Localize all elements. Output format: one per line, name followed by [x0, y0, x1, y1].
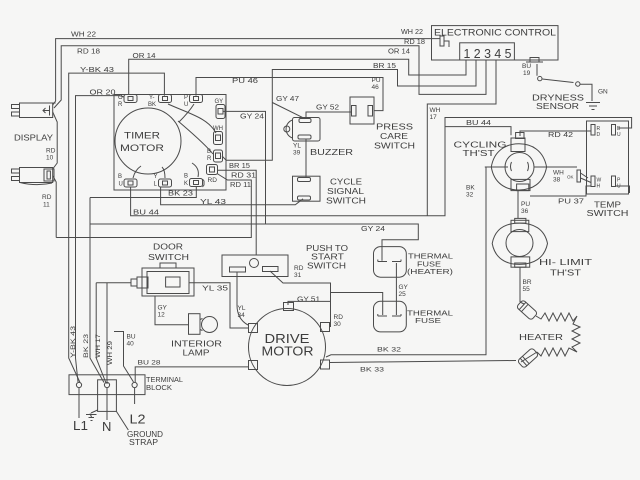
wire RD 31: [217, 170, 256, 255]
wire GY 24 main: [90, 198, 418, 261]
timer terminal BK: [184, 174, 204, 188]
timer terminal Y-BK: [148, 95, 172, 109]
thermal fuse (heater): [374, 247, 454, 278]
svg-text:BU 44: BU 44: [133, 210, 159, 217]
wire BK 23: [90, 187, 196, 198]
svg-text:38: 38: [553, 177, 561, 184]
svg-text:WH 22: WH 22: [71, 32, 96, 39]
svg-text:39: 39: [293, 150, 301, 157]
terminal block: [69, 375, 183, 447]
temp switch: [587, 121, 630, 218]
svg-text:ELECTRONIC CONTROL: ELECTRONIC CONTROL: [434, 28, 556, 38]
wire GY 51: [288, 297, 331, 306]
svg-text:CARE: CARE: [380, 132, 408, 141]
wire BK 32: [326, 167, 508, 357]
drive motor: [249, 303, 330, 386]
wire GY 25: [396, 263, 408, 315]
svg-text:BU: BU: [127, 334, 136, 341]
wire door switch left feed: [96, 282, 131, 284]
door switch: [131, 243, 194, 297]
svg-text:RD: RD: [334, 314, 344, 321]
svg-text:SWITCH: SWITCH: [307, 262, 346, 271]
svg-text:BLOCK: BLOCK: [146, 383, 172, 392]
dryness sensor: [532, 76, 608, 111]
svg-text:RD 42: RD 42: [548, 132, 573, 139]
wire WH 17 rail: [96, 283, 106, 383]
svg-text:N: N: [102, 419, 111, 434]
wire RD 10 display jog: [46, 112, 57, 169]
svg-text:BR: BR: [523, 279, 532, 286]
wire GY 52: [306, 105, 352, 119]
svg-text:PU 46: PU 46: [232, 78, 258, 85]
wire BU 44: [131, 118, 632, 217]
svg-text:Y-BK 43: Y-BK 43: [70, 325, 77, 358]
svg-text:TH'ST: TH'ST: [550, 269, 581, 278]
svg-text:12: 12: [158, 312, 166, 319]
svg-text:HI- LIMIT: HI- LIMIT: [539, 258, 592, 267]
svg-text:YL 43: YL 43: [200, 199, 226, 206]
wire Y-BK 43: [69, 67, 165, 383]
svg-text:BK 33: BK 33: [360, 367, 385, 374]
svg-text:R: R: [118, 102, 123, 108]
svg-text:BK: BK: [466, 185, 475, 192]
svg-text:RD 18: RD 18: [77, 49, 100, 56]
svg-text:TIMER: TIMER: [124, 131, 160, 142]
svg-text:BK 23: BK 23: [83, 333, 90, 358]
svg-text:L2: L2: [130, 412, 146, 427]
svg-text:RD: RD: [46, 148, 56, 155]
display connector lower: [12, 168, 55, 185]
svg-text:GY: GY: [215, 99, 224, 105]
svg-text:BK: BK: [148, 102, 156, 108]
cycle signal switch: [293, 176, 367, 205]
svg-text:YL 35: YL 35: [202, 286, 228, 293]
svg-text:GY: GY: [158, 305, 168, 312]
press care switch: [350, 97, 415, 151]
svg-text:RD 31: RD 31: [231, 173, 256, 180]
svg-text:LAMP: LAMP: [183, 349, 210, 358]
wire RD 11: [56, 174, 251, 238]
svg-text:GY 52: GY 52: [316, 105, 339, 112]
svg-text:10: 10: [46, 155, 54, 162]
svg-text:(HEATER): (HEATER): [407, 267, 454, 276]
svg-text:RD: RD: [294, 265, 304, 272]
display connector upper: [12, 103, 56, 118]
svg-text:55: 55: [523, 286, 531, 293]
wire RD 30: [270, 271, 383, 328]
wire PU 37: [530, 186, 591, 206]
heater connector lower: [517, 348, 539, 369]
cycling thermostat: [454, 133, 554, 191]
svg-text:U: U: [184, 102, 188, 108]
svg-text:34: 34: [238, 312, 246, 319]
electronic control plug BU19: [526, 58, 543, 63]
svg-text:36: 36: [521, 208, 529, 215]
svg-text:BU 44: BU 44: [466, 120, 491, 127]
heater connector upper: [516, 300, 538, 321]
svg-text:PU: PU: [372, 77, 381, 84]
hi-limit thermostat: [492, 218, 592, 277]
svg-text:WH: WH: [553, 170, 564, 177]
timer terminal RD: [207, 165, 218, 185]
svg-text:OR 14: OR 14: [388, 49, 410, 56]
wire WH 38: [534, 167, 577, 184]
svg-text:P: P: [184, 95, 188, 101]
svg-text:D: D: [597, 132, 601, 138]
timer terminal GY: [215, 99, 226, 119]
wire YL 43: [161, 187, 303, 206]
svg-text:PU: PU: [521, 201, 530, 208]
wire GY 47: [272, 96, 305, 119]
wire YL 35: [189, 283, 249, 328]
svg-text:GY 24: GY 24: [361, 226, 385, 233]
svg-text:RD 18: RD 18: [404, 39, 425, 46]
svg-text:BR 15: BR 15: [229, 163, 250, 170]
svg-text:START: START: [311, 253, 344, 262]
timer motor box: [114, 95, 226, 191]
svg-text:BUZZER: BUZZER: [310, 147, 353, 157]
svg-text:FUSE: FUSE: [415, 316, 441, 325]
heater element: [519, 302, 580, 362]
svg-text:WH 17: WH 17: [95, 334, 102, 358]
push to start switch: [222, 244, 348, 279]
svg-text:31: 31: [294, 272, 302, 279]
timer terminal YL: [154, 174, 172, 188]
svg-text:L1: L1: [73, 418, 88, 433]
wire OR 14: [129, 49, 466, 96]
svg-text:WH 22: WH 22: [401, 29, 423, 36]
svg-text:17: 17: [430, 114, 438, 121]
svg-text:BR 15: BR 15: [373, 63, 396, 70]
svg-text:RD: RD: [42, 194, 52, 201]
wire WH 17: [427, 60, 496, 216]
wire BU 40: [114, 332, 136, 383]
svg-text:Y-BK 43: Y-BK 43: [80, 67, 114, 74]
svg-text:TH'ST: TH'ST: [463, 149, 495, 158]
electronic control plug WH22/RD18: [437, 36, 449, 47]
svg-text:B: B: [118, 174, 122, 180]
svg-text:WH: WH: [213, 126, 223, 132]
svg-text:YL: YL: [238, 305, 246, 312]
electronic control box: [432, 26, 559, 60]
svg-text:SWITCH: SWITCH: [326, 197, 366, 206]
electronic control connector 1 2 3 4 5: [460, 43, 515, 61]
wire BU 28: [135, 360, 248, 383]
svg-text:46: 46: [372, 84, 380, 91]
wire BU 19: [522, 63, 537, 77]
svg-text:MOTOR: MOTOR: [262, 344, 314, 359]
wire RD 18: [54, 39, 486, 108]
wire OR 20: [76, 90, 125, 383]
timer terminal BR: [207, 149, 223, 162]
buzzer: [284, 118, 353, 179]
svg-text:GY 47: GY 47: [276, 96, 299, 103]
svg-text:SENSOR: SENSOR: [536, 102, 579, 111]
svg-text:WH: WH: [430, 107, 441, 114]
wire WH 22: [53, 29, 437, 105]
svg-text:CYCLE: CYCLE: [330, 178, 362, 187]
svg-text:SWITCH: SWITCH: [587, 209, 629, 218]
svg-text:BU 28: BU 28: [138, 360, 161, 367]
svg-text:SIGNAL: SIGNAL: [327, 187, 365, 196]
svg-text:BK 32: BK 32: [377, 347, 402, 354]
timer terminal PU: [184, 95, 203, 109]
wire GY 24 timer drop: [223, 111, 266, 224]
svg-text:B: B: [207, 149, 211, 155]
wire BK 23 rail: [90, 224, 104, 383]
wire BR 55: [520, 267, 532, 302]
wire PU 46: [196, 77, 383, 111]
svg-text:BU: BU: [522, 63, 531, 70]
svg-text:HEATER: HEATER: [519, 333, 563, 342]
svg-text:R: R: [207, 156, 212, 162]
temp switch contact WH38: [567, 170, 591, 183]
svg-text:25: 25: [399, 291, 407, 298]
svg-text:MOTOR: MOTOR: [120, 143, 164, 154]
svg-text:PRESS: PRESS: [376, 123, 413, 132]
wire RD 42: [520, 131, 591, 139]
svg-text:BK 23: BK 23: [168, 191, 193, 198]
wire YL 34: [237, 272, 248, 325]
svg-text:Y: Y: [154, 174, 158, 180]
svg-text:PU 37: PU 37: [558, 199, 584, 206]
svg-text:DOOR: DOOR: [153, 243, 183, 252]
svg-text:30: 30: [334, 321, 342, 328]
svg-text:K: K: [184, 181, 188, 187]
timer terminal BU: [118, 174, 137, 188]
svg-text:40: 40: [127, 341, 135, 348]
svg-text:SWITCH: SWITCH: [148, 253, 189, 262]
svg-text:YL: YL: [293, 143, 301, 150]
svg-text:GY: GY: [399, 284, 409, 291]
svg-text:O: O: [118, 95, 123, 101]
svg-text:H: H: [597, 184, 601, 190]
svg-text:STRAP: STRAP: [129, 438, 158, 447]
wire BR 15: [222, 60, 476, 170]
interior lamp: [171, 314, 222, 358]
svg-text:19: 19: [523, 70, 531, 77]
svg-text:Y-: Y-: [149, 95, 154, 101]
svg-text:WH 29: WH 29: [107, 341, 114, 365]
svg-text:B: B: [184, 174, 188, 180]
wire WH 29 rail: [106, 283, 108, 384]
svg-text:1 2 3 4 5: 1 2 3 4 5: [464, 47, 512, 61]
wire RD 11 display stem: [42, 176, 56, 238]
svg-text:OR 14: OR 14: [133, 53, 156, 60]
svg-text:RD: RD: [208, 177, 218, 184]
svg-text:32: 32: [466, 192, 474, 199]
svg-text:OK: OK: [567, 175, 574, 180]
thermal fuse: [374, 301, 454, 332]
svg-text:SWITCH: SWITCH: [374, 142, 415, 151]
wire GY 12: [155, 296, 189, 325]
svg-text:GY 24: GY 24: [240, 114, 264, 121]
svg-text:U: U: [119, 182, 123, 188]
svg-text:GN: GN: [598, 89, 608, 96]
svg-text:U: U: [617, 132, 621, 138]
svg-text:INTERIOR: INTERIOR: [171, 340, 222, 349]
svg-text:GY 51: GY 51: [297, 297, 320, 304]
svg-text:DISPLAY: DISPLAY: [14, 133, 53, 143]
wire PU 36: [518, 191, 530, 219]
svg-text:RD 11: RD 11: [230, 182, 251, 189]
svg-text:OR 20: OR 20: [90, 90, 116, 97]
timer terminal OR: [118, 95, 137, 109]
svg-text:11: 11: [43, 202, 50, 209]
wire BK 33: [330, 361, 516, 374]
timer terminal WH: [213, 126, 223, 145]
